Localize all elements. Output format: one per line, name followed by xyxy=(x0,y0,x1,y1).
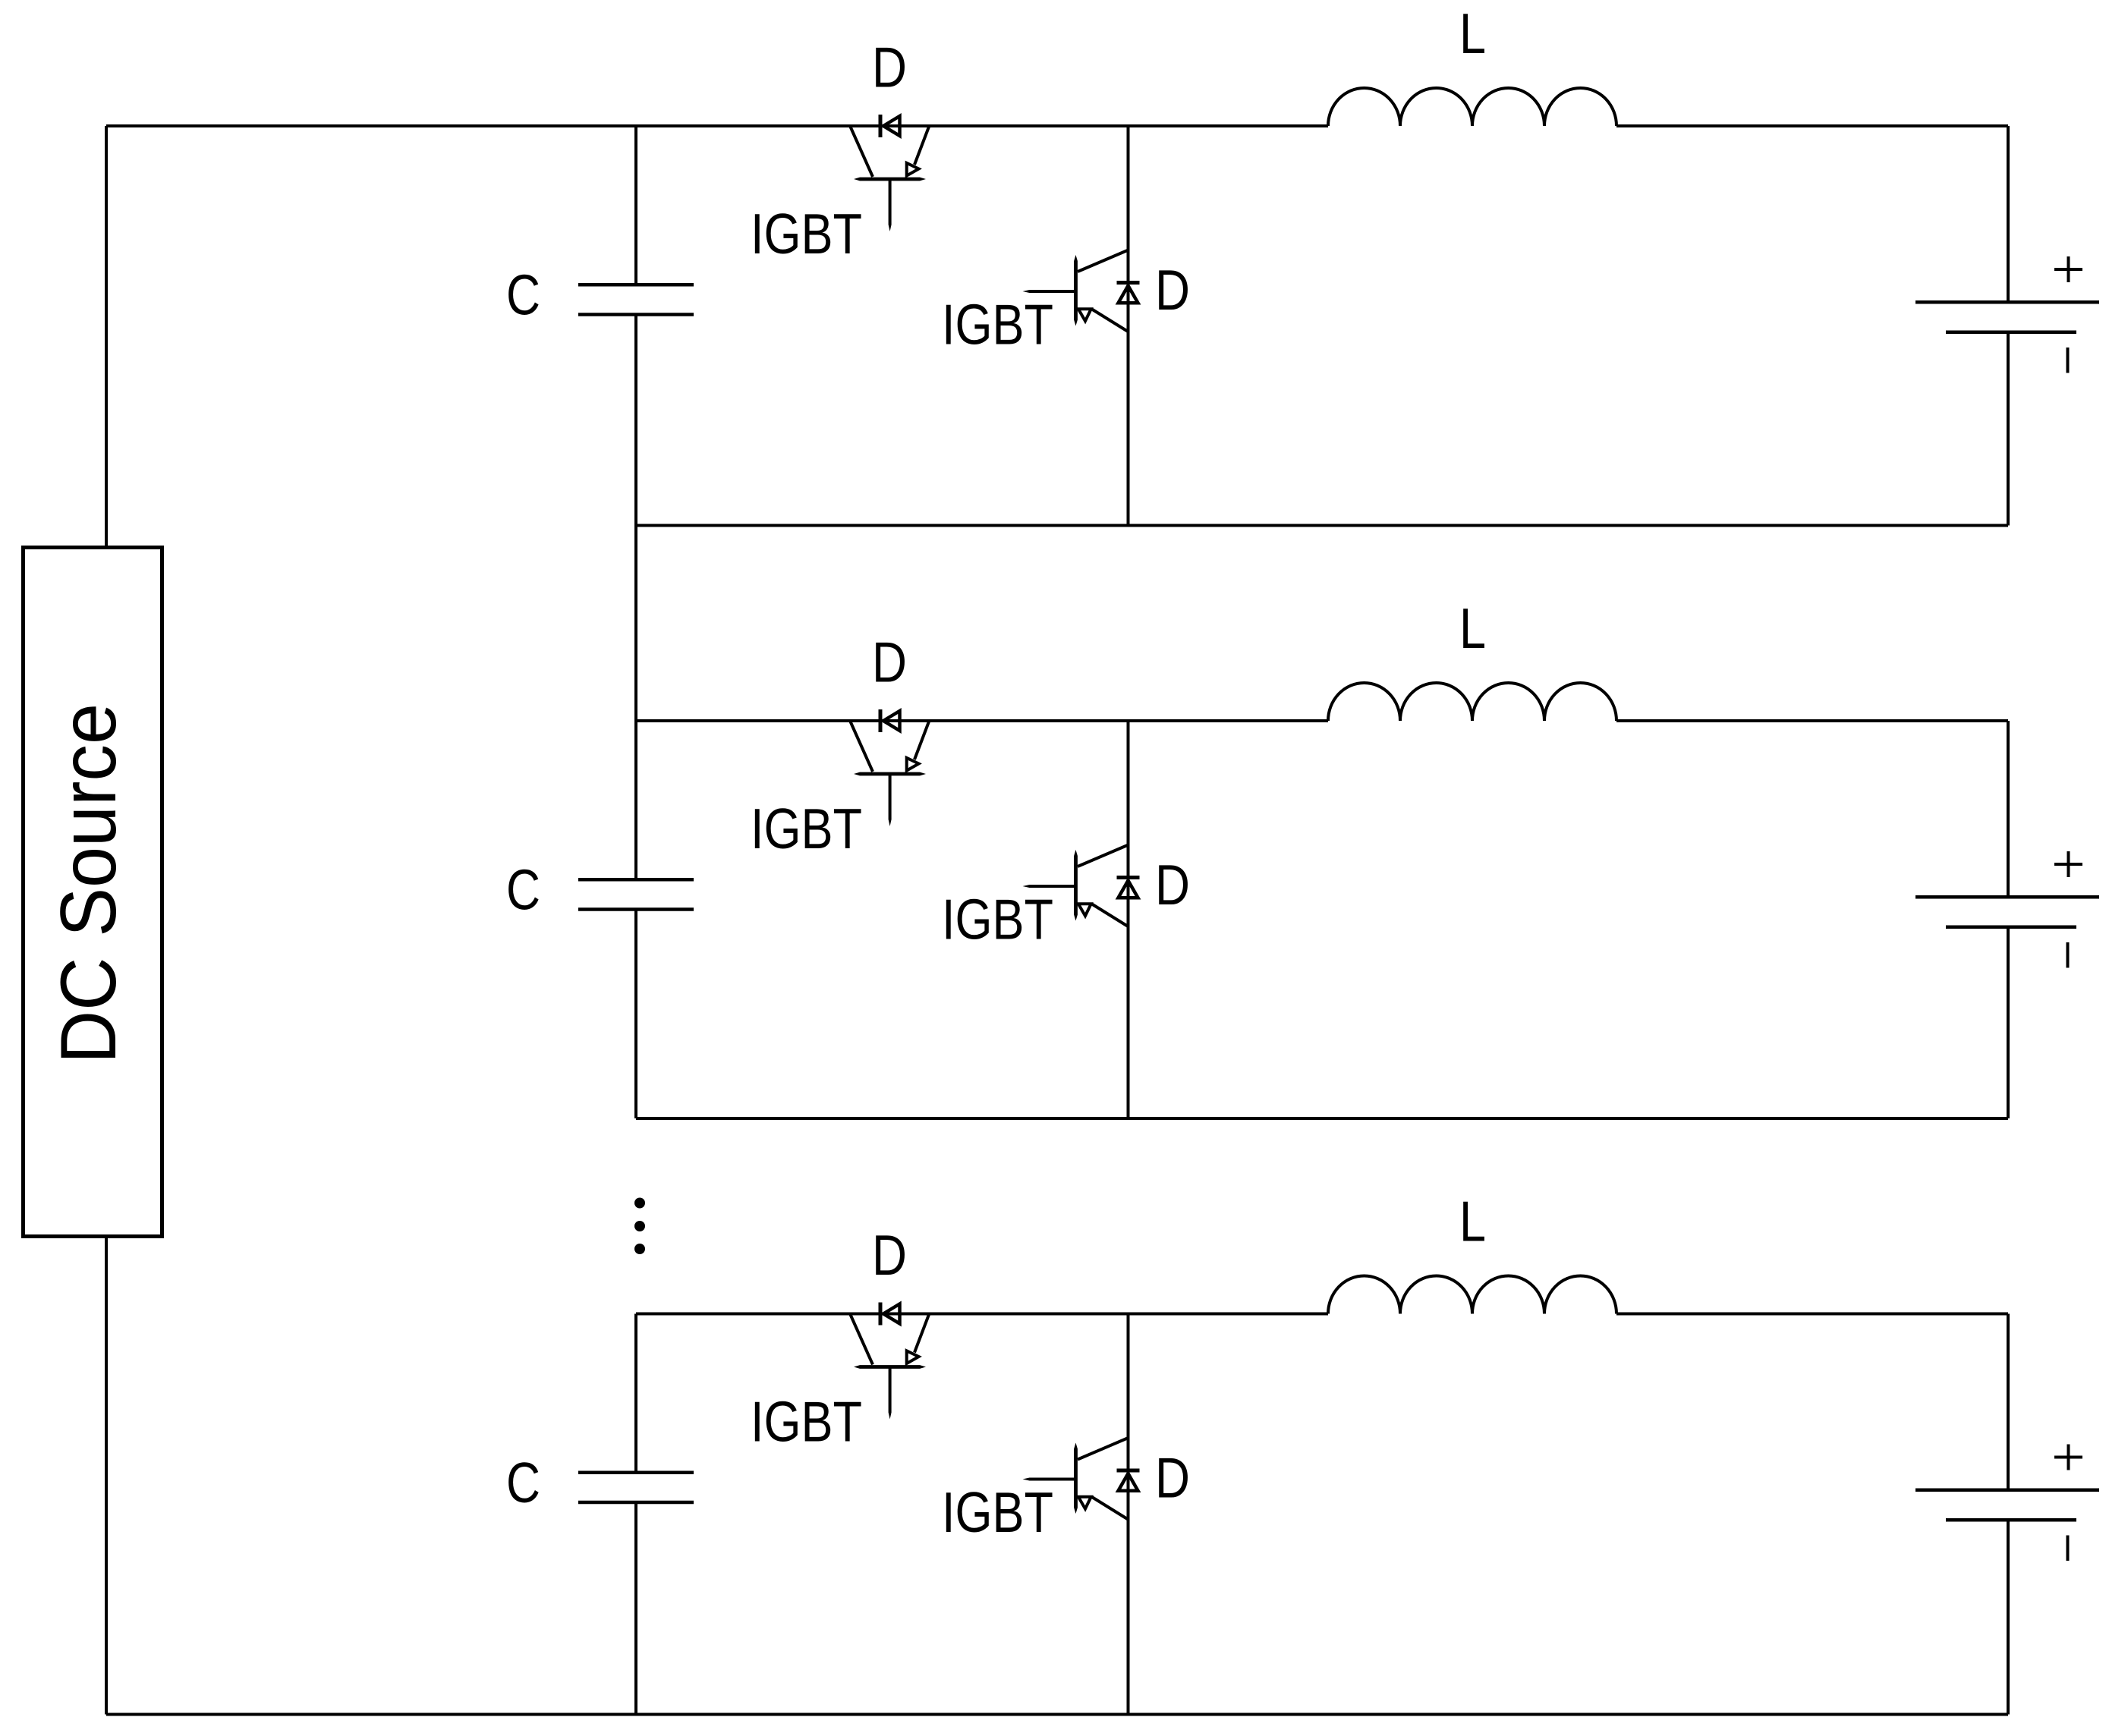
wire: cell 2 right leg (lower) xyxy=(2007,927,2010,1118)
output capacitor (cell 3) xyxy=(1915,1489,2099,1492)
svg-text:L: L xyxy=(1459,596,1486,660)
inductor L (cell 1) xyxy=(1328,88,1616,126)
inductor L (cell 3) xyxy=(1328,1276,1616,1314)
label - (cell 3) xyxy=(2067,1536,2070,1561)
wire: left bus connector cell1-cell2 xyxy=(634,526,637,722)
wire: cell 3 left leg (lower) xyxy=(634,1502,637,1715)
svg-text:IGBT: IGBT xyxy=(751,202,862,266)
ellipsis dots (repetition) xyxy=(634,1198,645,1209)
svg-text:C: C xyxy=(506,858,540,922)
transistor IGBT (cell 3 top, horizontal) xyxy=(851,1315,874,1365)
svg-text:D: D xyxy=(872,36,907,99)
wire: cell 3 mid leg xyxy=(1127,1314,1130,1715)
diode D (cell 1 mid) xyxy=(1117,281,1140,285)
diode D (cell 2 mid) xyxy=(1117,876,1140,879)
wire: cell 3 right leg (lower) xyxy=(2007,1520,2010,1714)
label + (cell 1) xyxy=(2054,268,2082,271)
svg-text:L: L xyxy=(1459,1190,1486,1253)
svg-text:DC Source: DC Source xyxy=(45,703,133,1064)
svg-text:D: D xyxy=(1155,258,1190,322)
output capacitor (cell 2) xyxy=(1915,895,2099,899)
svg-text:C: C xyxy=(506,1451,540,1514)
wire: cell 2 bottom rail xyxy=(636,1117,2008,1120)
wire: cell 2 left leg (upper) xyxy=(634,721,637,879)
svg-text:D: D xyxy=(872,631,907,694)
svg-text:IGBT: IGBT xyxy=(942,293,1053,357)
wire: cell 2 mid leg xyxy=(1127,721,1130,1118)
wire: left source wire (upper) xyxy=(105,126,108,548)
transistor IGBT (cell 1 mid, vertical) xyxy=(1078,250,1128,272)
svg-text:D: D xyxy=(1155,1446,1190,1510)
label + (cell 2) xyxy=(2054,863,2082,866)
wire: cell 2 right leg (upper) xyxy=(2007,721,2010,897)
transistor IGBT (cell 2 top, horizontal) xyxy=(851,722,874,772)
wire: left source wire (lower) xyxy=(105,1237,108,1715)
svg-text:L: L xyxy=(1459,2,1486,65)
svg-text:IGBT: IGBT xyxy=(942,1480,1053,1544)
wire: bottom rail xyxy=(106,1713,636,1716)
wire: cell 3 right leg (upper) xyxy=(2007,1314,2010,1490)
svg-text:C: C xyxy=(506,263,540,327)
wire: cell 1 top rail xyxy=(106,124,1328,127)
wire: cell 1 bottom rail xyxy=(636,524,2008,527)
svg-text:IGBT: IGBT xyxy=(751,1390,862,1454)
diode D (cell 1 top) xyxy=(879,115,883,137)
transistor IGBT (cell 2 mid, vertical) xyxy=(1078,845,1128,866)
wire: cell 3 bottom rail xyxy=(636,1713,2008,1716)
wire: cell 1 left leg (upper) xyxy=(634,126,637,285)
capacitor C (cell 2) xyxy=(578,878,694,882)
DC source box xyxy=(24,548,162,1237)
label - (cell 1) xyxy=(2067,348,2070,373)
svg-text:D: D xyxy=(1155,853,1190,917)
wire: cell 2 left leg (lower) xyxy=(634,910,637,1119)
wire: cell 1 mid leg xyxy=(1127,126,1130,526)
diode D (cell 3 top) xyxy=(879,1303,883,1326)
svg-text:IGBT: IGBT xyxy=(751,797,862,860)
diode D (cell 2 top) xyxy=(879,709,883,732)
wire: cell 1 left leg (lower) xyxy=(634,315,637,526)
wire: cell 3 left leg (upper) xyxy=(634,1314,637,1473)
wire: cell 1 right leg (upper) xyxy=(2007,126,2010,302)
svg-text:IGBT: IGBT xyxy=(942,888,1053,951)
wire: cell 2 top rail xyxy=(636,719,1328,722)
diode D (cell 3 mid) xyxy=(1117,1469,1140,1473)
label + (cell 3) xyxy=(2054,1456,2082,1459)
svg-text:D: D xyxy=(872,1223,907,1287)
wire: cell 1 right leg (lower) xyxy=(2007,332,2010,526)
transistor IGBT (cell 3 mid, vertical) xyxy=(1078,1439,1128,1460)
inductor L (cell 2) xyxy=(1328,683,1616,721)
wire: cell 3 top rail xyxy=(636,1313,1328,1316)
output capacitor (cell 1) xyxy=(1915,300,2099,304)
capacitor C (cell 1) xyxy=(578,283,694,287)
transistor IGBT (cell 1 top, horizontal) xyxy=(851,127,874,177)
label - (cell 2) xyxy=(2067,942,2070,968)
capacitor C (cell 3) xyxy=(578,1471,694,1475)
